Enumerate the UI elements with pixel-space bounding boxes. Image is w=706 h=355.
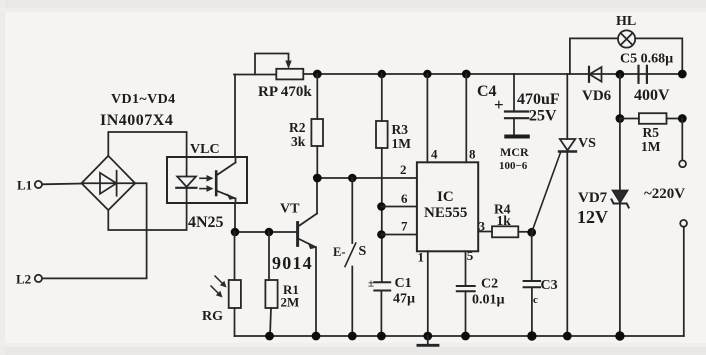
- wire RP left lead: [234, 74, 276, 76]
- svg-text:3k: 3k: [291, 134, 306, 149]
- zener diode VD7 12V: [612, 119, 629, 337]
- svg-text:6: 6: [401, 191, 408, 206]
- svg-text:3: 3: [479, 219, 486, 234]
- terminal L1: [17, 178, 42, 193]
- svg-text:400V: 400V: [634, 87, 670, 104]
- capacitor C5 0.68u: [639, 66, 647, 83]
- svg-text:E-: E-: [333, 245, 346, 259]
- svg-text:IN4007X4: IN4007X4: [100, 112, 173, 129]
- label 470uF 25V: [517, 91, 560, 125]
- node RP/R2 junction: [313, 70, 322, 79]
- capacitor C2 0.01u: [457, 286, 475, 336]
- svg-text:NE555: NE555: [424, 205, 467, 221]
- svg-text:1M: 1M: [641, 139, 661, 154]
- node R1 top: [265, 228, 274, 237]
- svg-text:47µ: 47µ: [393, 292, 415, 307]
- pin 3 wire: [478, 231, 492, 233]
- label R2 3k: [289, 120, 306, 149]
- svg-text:VS: VS: [578, 136, 596, 151]
- terminal mains lower: [680, 220, 687, 227]
- wire pin7 line: [381, 234, 417, 236]
- node bus C3: [527, 331, 536, 340]
- node switch top: [348, 174, 357, 183]
- svg-text:L2: L2: [16, 272, 31, 287]
- switch S: [345, 178, 356, 336]
- label MCR 100-6: [499, 145, 529, 172]
- pin 1 wire: [427, 251, 429, 336]
- svg-text:25V: 25V: [529, 108, 557, 125]
- node opto emitter / RG: [231, 228, 240, 237]
- svg-text:~220V: ~220V: [644, 186, 685, 202]
- svg-text:4N25: 4N25: [188, 214, 224, 231]
- capacitor C1 47u: [368, 278, 390, 337]
- wire VT emitter down to bus: [315, 247, 317, 336]
- ground: [418, 336, 438, 345]
- optocoupler VLC box: [167, 157, 247, 203]
- node pin7 junction: [377, 230, 386, 239]
- svg-text:VD7: VD7: [578, 190, 608, 206]
- label IC NE555: [424, 189, 467, 221]
- node R4 output: [527, 228, 536, 237]
- svg-text:RP 470k: RP 470k: [258, 84, 312, 100]
- svg-text:R3: R3: [392, 122, 409, 137]
- resistor R1 2M: [265, 232, 277, 336]
- wire bridge - output to LED cathode: [108, 203, 186, 230]
- node bus VS cathode: [563, 332, 572, 341]
- label C2 0.01u: [472, 277, 505, 308]
- pin 4 wire: [426, 74, 428, 162]
- svg-text:9014: 9014: [272, 253, 313, 273]
- wire L2 to bridge right vertex: [42, 183, 146, 278]
- wire R4 node down to C3: [531, 232, 533, 281]
- wire pin2 line: [317, 177, 417, 179]
- node bus VD7: [615, 331, 624, 340]
- wire bottom bus: [235, 335, 684, 337]
- node bus R1: [265, 332, 274, 341]
- label R1 2M: [281, 282, 300, 310]
- node VD6/C5 left junction: [616, 70, 625, 79]
- wire VD6 node down to R5: [619, 74, 621, 118]
- svg-text:R5: R5: [643, 125, 660, 140]
- node pin8 top junction: [462, 70, 471, 79]
- svg-text:C3: C3: [541, 278, 558, 293]
- photoresistor RG: [211, 232, 241, 336]
- node C5 right top: [678, 70, 687, 79]
- node bus C1: [377, 332, 386, 341]
- svg-text:IC: IC: [437, 189, 454, 205]
- node bus VT emitter: [312, 332, 321, 341]
- capacitor C4 470uF 25V: [494, 74, 530, 139]
- svg-text:C2: C2: [481, 277, 498, 292]
- svg-text:2M: 2M: [281, 295, 300, 310]
- wire phototransistor collector up to RP: [235, 157, 237, 163]
- resistor R3 1M: [376, 74, 388, 282]
- wire lamp left lead: [570, 38, 618, 74]
- svg-text:2: 2: [400, 162, 407, 177]
- node R5 right: [678, 114, 687, 123]
- label R5 1M: [641, 125, 661, 154]
- node bus switch: [348, 332, 357, 341]
- lamp HL: [618, 30, 635, 47]
- svg-text:VLC: VLC: [190, 142, 220, 157]
- op IC NE555 box: [417, 162, 478, 251]
- capacitor C3: [524, 281, 541, 336]
- node pin6 junction: [377, 202, 386, 211]
- transistor VT 9014: [298, 214, 317, 250]
- svg-text:R2: R2: [289, 120, 306, 135]
- svg-text:c: c: [533, 294, 538, 306]
- svg-text:8: 8: [469, 147, 476, 162]
- node R2/VT collector: [313, 174, 322, 183]
- node bus pin1/ground: [423, 332, 432, 341]
- svg-text:1: 1: [418, 250, 425, 265]
- resistor R4 1k: [492, 226, 532, 237]
- wire phototransistor emitter down to base node: [235, 199, 237, 204]
- wire base line: [235, 231, 298, 233]
- optocoupler phototransistor: [216, 163, 235, 200]
- node R3 top junction: [378, 70, 386, 78]
- diode bridge VD1~VD4: [82, 156, 136, 210]
- svg-text:HL: HL: [616, 14, 636, 29]
- pin 5 wire: [465, 251, 467, 286]
- optocoupler LED: [176, 157, 196, 203]
- label C1 47u: [393, 276, 415, 307]
- svg-text:MCR: MCR: [500, 145, 529, 159]
- wire pin6 line: [381, 206, 417, 208]
- svg-text:5: 5: [467, 248, 474, 263]
- svg-text:12V: 12V: [577, 207, 608, 227]
- svg-text:C1: C1: [395, 276, 412, 291]
- svg-text:4: 4: [431, 147, 438, 162]
- resistor R5 1M: [620, 113, 682, 124]
- svg-text:VD1~VD4: VD1~VD4: [111, 92, 176, 107]
- svg-text:100−6: 100−6: [499, 160, 528, 172]
- svg-text:RG: RG: [202, 309, 223, 324]
- svg-text:7: 7: [401, 219, 408, 234]
- label R3 1M: [392, 122, 412, 151]
- svg-text:L1: L1: [17, 178, 32, 193]
- wire lamp right lead: [635, 38, 682, 74]
- node R5 left: [616, 114, 625, 123]
- terminal L2: [16, 272, 42, 287]
- svg-text:470uF: 470uF: [517, 91, 560, 108]
- svg-text:VD6: VD6: [582, 88, 612, 104]
- wire top rail y=74: [303, 73, 682, 75]
- resistor R2 3k: [311, 74, 323, 178]
- svg-text:1M: 1M: [392, 136, 412, 151]
- svg-text:1k: 1k: [497, 213, 512, 228]
- terminal mains upper: [679, 160, 686, 167]
- diode VD6: [589, 67, 602, 82]
- potentiometer RP 470k: [255, 54, 303, 80]
- pin 8 wire: [465, 74, 467, 162]
- wire mains lower terminal to bus: [683, 227, 685, 336]
- svg-text:C4: C4: [477, 83, 497, 100]
- optocoupler light arrows: [200, 175, 214, 192]
- svg-text:S: S: [359, 244, 367, 259]
- svg-text:±: ±: [368, 278, 374, 290]
- thyristor VS: [532, 74, 576, 336]
- wire L1 to bridge: [42, 183, 82, 186]
- wire bridge + output to LED anode: [108, 132, 186, 157]
- wire VT collector up to pin2 line: [316, 178, 318, 214]
- svg-text:C5 0.68µ: C5 0.68µ: [620, 52, 673, 67]
- wire R5 right down to mains terminal: [681, 119, 683, 161]
- svg-text:0.01µ: 0.01µ: [472, 293, 505, 308]
- node bus C2: [461, 332, 470, 341]
- label R4 1k: [494, 202, 511, 229]
- svg-text:VT: VT: [280, 202, 300, 217]
- node pin4 top junction: [423, 70, 431, 78]
